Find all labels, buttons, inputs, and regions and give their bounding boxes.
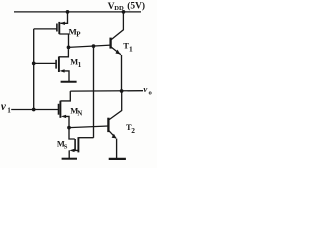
node v1 input label	[1, 101, 11, 114]
junction dot: bus joins v1 wire	[32, 108, 36, 112]
wire: VDD supply rail	[14, 11, 141, 13]
svg-text:v: v	[1, 101, 7, 113]
transistor MS drain lead to node A branch	[78, 137, 93, 139]
transistor M1 gate bar	[55, 60, 57, 69]
transistor T2 emitter lead with arrow	[108, 130, 116, 138]
svg-text:2: 2	[131, 126, 135, 135]
label MP	[69, 26, 82, 38]
svg-text:1: 1	[7, 106, 11, 114]
ground symbol: T2 emitter	[109, 158, 126, 160]
label MN	[70, 105, 82, 117]
transistor MS gate bar	[74, 139, 76, 150]
label T1	[123, 41, 133, 54]
svg-text:1: 1	[129, 44, 133, 53]
transistor M1 drain lead to node A	[59, 49, 69, 57]
junction dot: MP source to VDD rail	[66, 10, 70, 14]
node VDD label VDD (5V)	[108, 1, 145, 12]
transistor MP drain lead	[59, 34, 68, 47]
svg-text:S: S	[64, 143, 68, 150]
svg-text:v: v	[143, 84, 147, 94]
transistor T2 (npn) collector lead	[109, 91, 122, 120]
svg-text:N: N	[77, 111, 82, 118]
transistor M1 source lead with arrow	[63, 71, 69, 82]
svg-text:(5V): (5V)	[127, 1, 145, 12]
junction dot: node A branch to MS drain	[92, 44, 96, 48]
wire: T1 emitter down to output node	[121, 55, 123, 91]
wire: node A branch down to MS drain (crosses output wire and T2 base wire)	[93, 46, 95, 138]
node vo label	[143, 84, 152, 96]
wire: T2 emitter to ground	[116, 139, 118, 159]
svg-text:o: o	[149, 89, 153, 96]
junction dot: T1 collector to VDD rail	[122, 10, 126, 14]
wire: v1 input to MN gate	[11, 109, 58, 111]
junction dot: bus to M1 gate	[32, 62, 36, 66]
svg-text:1: 1	[78, 61, 82, 69]
ground symbol: MS source	[62, 158, 77, 160]
transistor MP (pmos) source lead from rail with arrow	[61, 12, 68, 23]
label MS	[57, 139, 68, 150]
transistor MN source lead with arrow	[65, 116, 70, 127]
transistor M1 channel bar	[58, 57, 60, 73]
transistor T1 base bar	[109, 38, 111, 49]
ground symbol: M1 source	[61, 81, 77, 83]
wire: MN source node to T2 base	[69, 126, 108, 128]
wire: MS gate tie from T2 base node	[69, 128, 75, 139]
transistor MP channel bar	[58, 22, 60, 34]
transistor MN gate bar	[58, 104, 60, 115]
wire: node A from MP/M1 drains to T1 base	[69, 45, 111, 47]
svg-text:P: P	[76, 30, 81, 38]
transistor MS channel bar	[77, 137, 79, 152]
transistor T1 emitter lead with arrow	[111, 47, 121, 55]
transistor MN drain lead to output wire	[60, 91, 70, 101]
transistor T2 base bar	[107, 118, 109, 132]
junction dot: node A (MP drain / M1 drain / T1 base wire)	[67, 46, 71, 50]
transistor MP gate bar	[56, 24, 58, 32]
junction dot: MN source / T2 base wire / MS gate	[67, 126, 71, 130]
wire: MP gate lead to input bus	[34, 28, 57, 30]
label M1	[70, 58, 81, 69]
label T2	[126, 123, 135, 135]
wire: input bus from MP gate down to v1	[33, 29, 35, 110]
transistor Q T1 (npn) collector lead	[111, 12, 124, 40]
wire: M1 gate lead	[34, 62, 56, 64]
transistor MN channel bar	[59, 101, 61, 118]
junction dot: T1 emitter / T2 collector / output	[120, 89, 124, 93]
transistor MS source lead with arrow	[69, 150, 78, 158]
wire: output node to vo terminal	[70, 90, 143, 92]
